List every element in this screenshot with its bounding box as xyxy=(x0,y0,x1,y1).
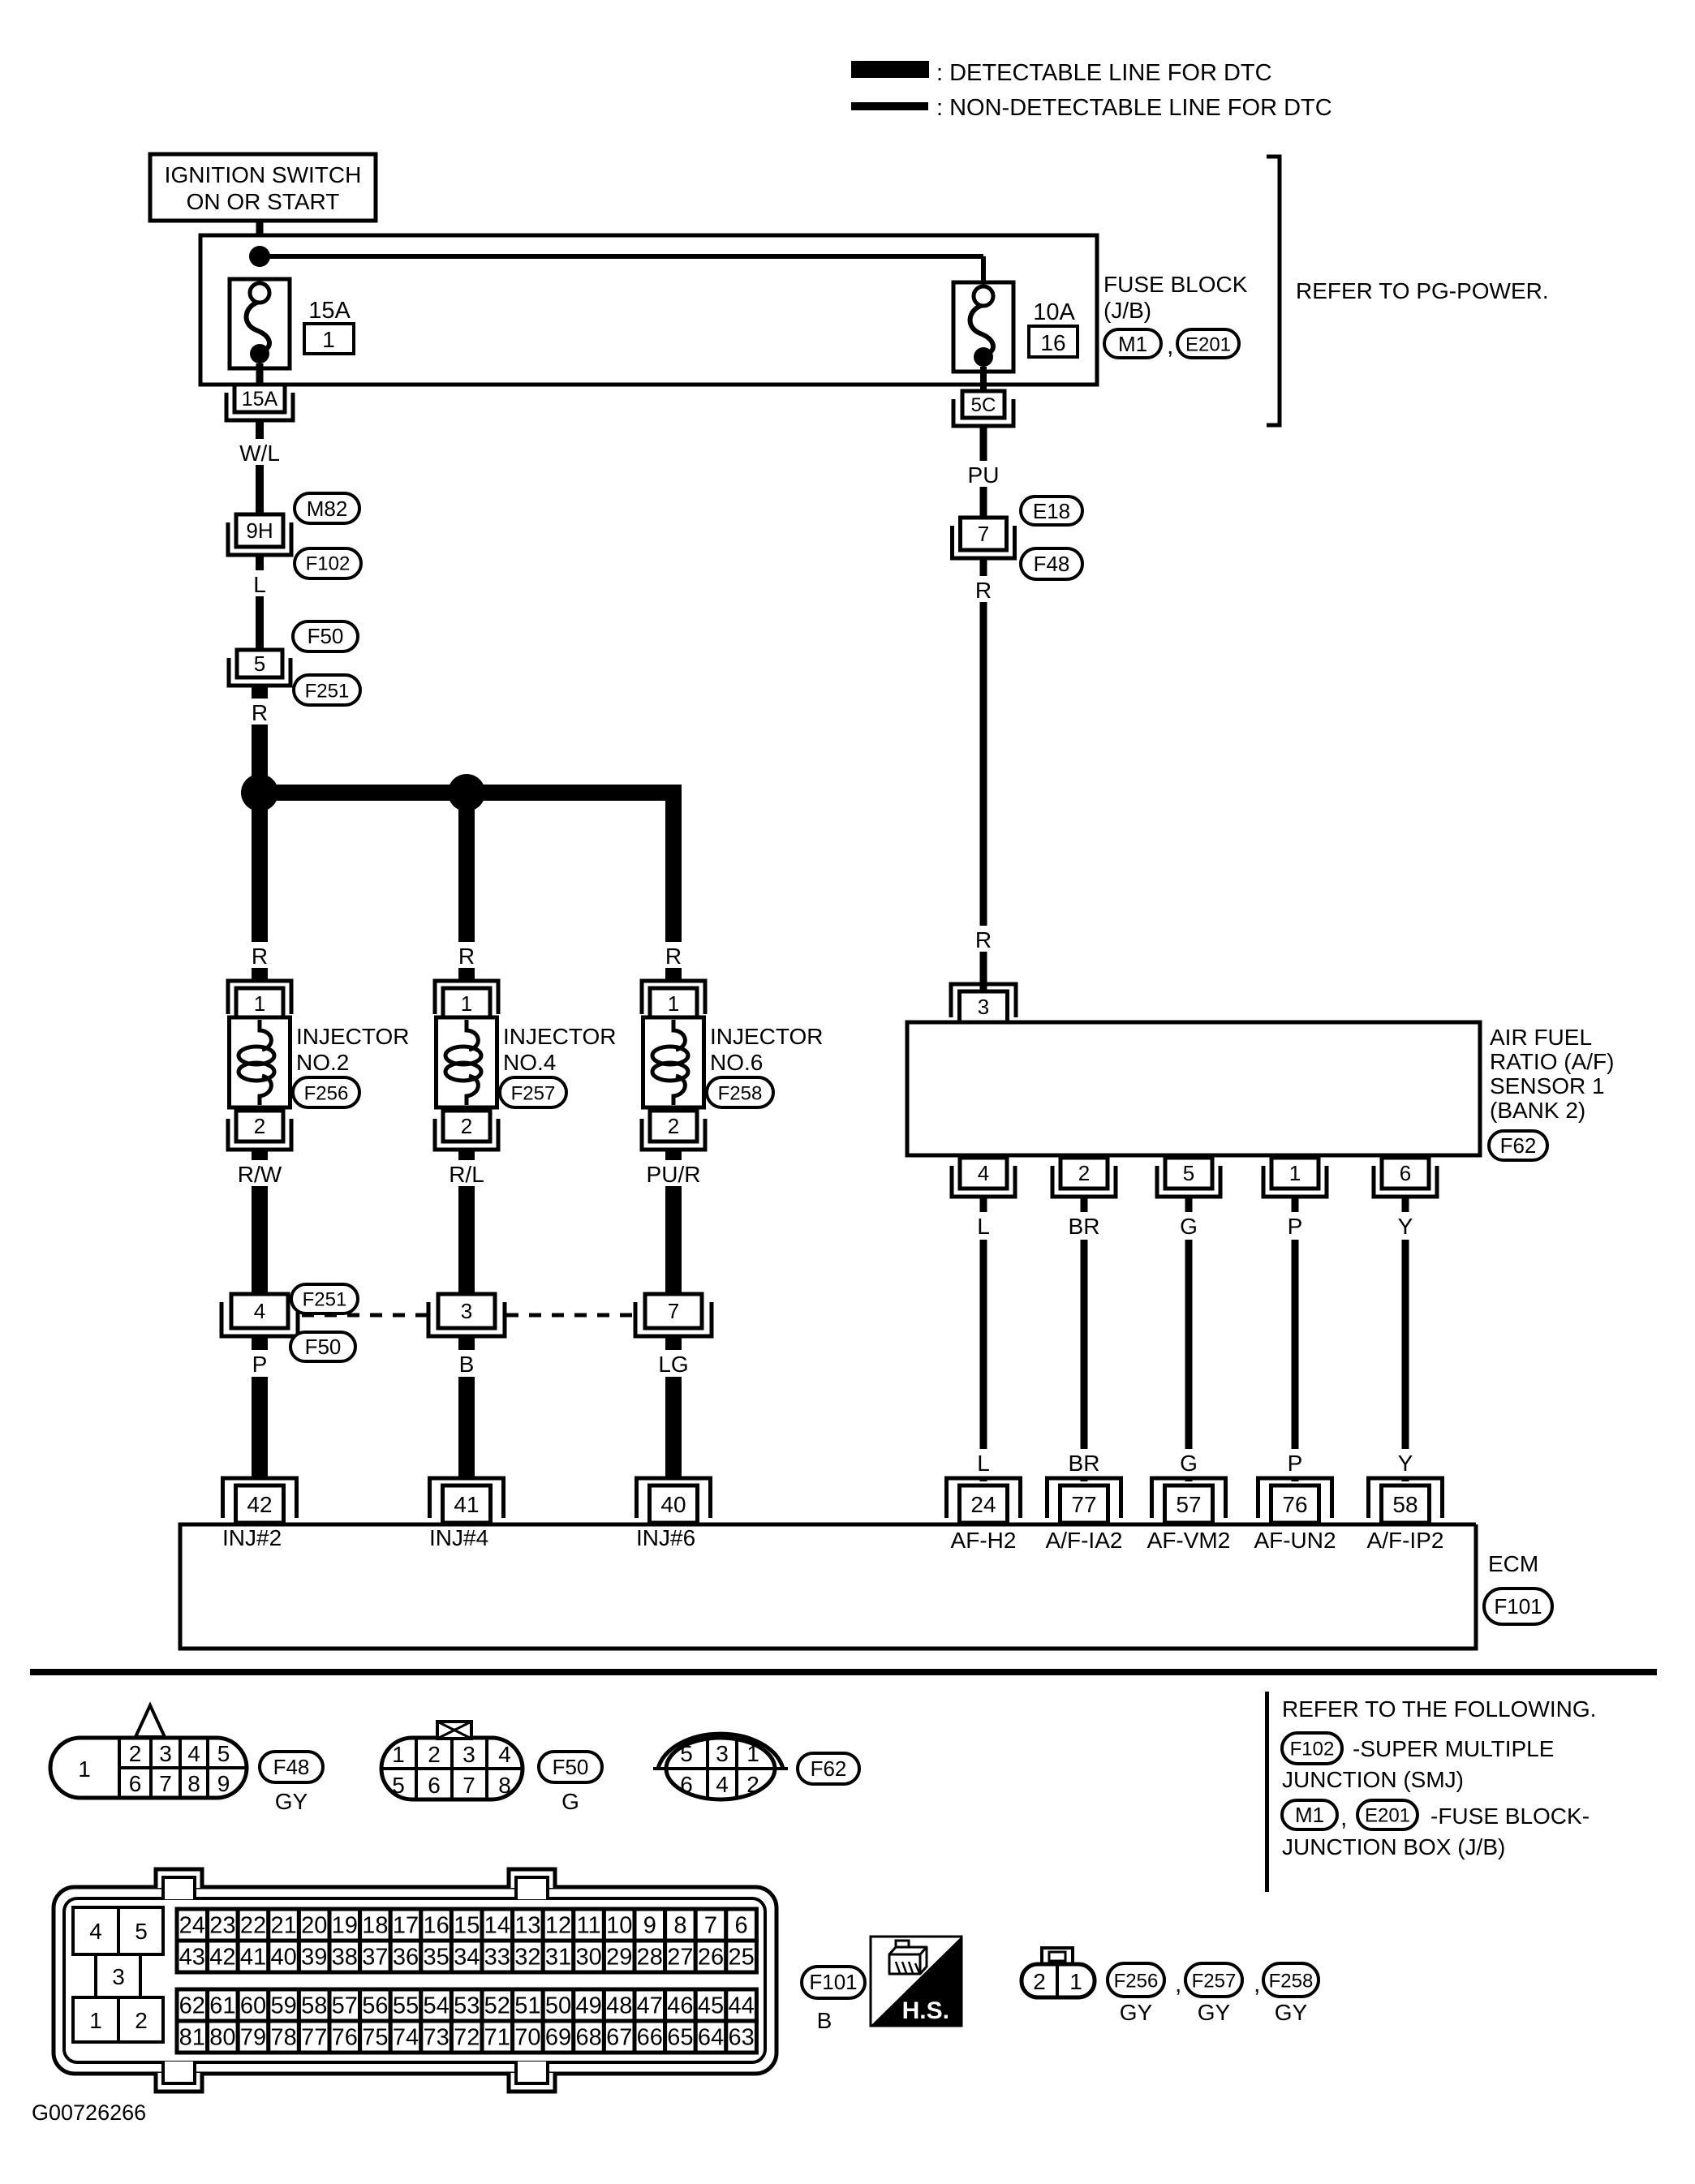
ECM pin 58 xyxy=(1369,1478,1443,1518)
wire LG xyxy=(665,1336,682,1352)
svg-text:E18: E18 xyxy=(1033,499,1070,523)
svg-text:74: 74 xyxy=(393,2025,419,2051)
svg-text:40: 40 xyxy=(270,1945,296,1971)
A/F sensor pin 5 xyxy=(1157,1166,1220,1197)
wire: fuse 16 to connector 5C xyxy=(980,367,987,391)
svg-text:5: 5 xyxy=(392,1773,405,1798)
svg-text:3: 3 xyxy=(978,995,989,1019)
svg-text:AF-UN2: AF-UN2 xyxy=(1254,1528,1336,1553)
svg-text:L: L xyxy=(977,1451,990,1476)
junction node in fuse block xyxy=(249,246,270,267)
svg-text:M1: M1 xyxy=(1118,332,1147,356)
connector 15A xyxy=(226,393,293,420)
svg-text:G: G xyxy=(561,1789,579,1814)
svg-text:60: 60 xyxy=(240,1993,266,2019)
connector 7 (E18/F48) xyxy=(953,526,1015,558)
ignition switch box xyxy=(150,154,376,221)
svg-text:6: 6 xyxy=(428,1773,441,1798)
svg-text:GY: GY xyxy=(1198,2000,1231,2025)
svg-text:F62: F62 xyxy=(811,1756,847,1781)
svg-text:24: 24 xyxy=(179,1913,205,1939)
svg-text:28: 28 xyxy=(637,1945,663,1971)
svg-text:9: 9 xyxy=(643,1913,656,1939)
oval M82 xyxy=(295,493,359,523)
svg-text:INJECTOR: INJECTOR xyxy=(503,1024,617,1049)
svg-text:ECM: ECM xyxy=(1488,1551,1538,1576)
svg-text:62: 62 xyxy=(179,1993,205,2019)
svg-text:1: 1 xyxy=(1069,1969,1082,1994)
svg-text:1: 1 xyxy=(254,991,265,1016)
svg-text:10A: 10A xyxy=(1033,299,1075,325)
svg-text:5: 5 xyxy=(254,651,265,676)
svg-text:GY: GY xyxy=(1120,2000,1153,2025)
svg-text:PU/R: PU/R xyxy=(647,1162,701,1187)
svg-text:78: 78 xyxy=(270,2025,296,2051)
svg-text:: DETECTABLE LINE FOR DTC: : DETECTABLE LINE FOR DTC xyxy=(936,60,1272,86)
svg-text:8: 8 xyxy=(673,1913,686,1939)
svg-text:5C: 5C xyxy=(971,394,996,416)
oval F50 (upper) xyxy=(293,621,358,651)
svg-text:INJECTOR: INJECTOR xyxy=(296,1024,410,1049)
svg-text:F62: F62 xyxy=(1500,1133,1537,1158)
svg-text:8: 8 xyxy=(498,1773,511,1798)
svg-text:F258: F258 xyxy=(718,1082,763,1104)
svg-text:70: 70 xyxy=(514,2025,540,2051)
connector 5C xyxy=(953,399,1013,426)
svg-text:L: L xyxy=(977,1214,990,1239)
svg-text:37: 37 xyxy=(362,1945,388,1971)
wire PU xyxy=(980,425,987,518)
svg-text:1: 1 xyxy=(392,1742,405,1767)
svg-text:77: 77 xyxy=(301,2025,327,2051)
svg-text:B: B xyxy=(817,2008,832,2033)
wire: fuse 1 to connector 15A xyxy=(256,363,264,385)
F101 pin grid lower xyxy=(177,1989,208,2021)
svg-text:Y: Y xyxy=(1398,1451,1413,1476)
svg-text:47: 47 xyxy=(637,1993,663,2019)
svg-text:R: R xyxy=(975,578,992,603)
dashed connector link xyxy=(302,1313,433,1318)
ECM pin 40 xyxy=(637,1478,711,1518)
svg-text:NO.4: NO.4 xyxy=(503,1050,556,1075)
svg-text:12: 12 xyxy=(545,1913,571,1939)
svg-text:24: 24 xyxy=(970,1492,996,1517)
svg-text:F50: F50 xyxy=(308,624,344,648)
oval F257 xyxy=(500,1077,566,1107)
svg-text:56: 56 xyxy=(362,1993,388,2019)
svg-text:19: 19 xyxy=(332,1913,358,1939)
wire R (right, upper) xyxy=(980,558,987,581)
svg-text:18: 18 xyxy=(362,1913,388,1939)
svg-text:32: 32 xyxy=(514,1945,540,1971)
svg-text:A/F-IA2: A/F-IA2 xyxy=(1046,1528,1123,1553)
svg-text:21: 21 xyxy=(270,1913,296,1939)
svg-text:F251: F251 xyxy=(305,680,350,702)
wire: R wire to injector 2 xyxy=(252,793,268,946)
svg-text:79: 79 xyxy=(240,2025,266,2051)
svg-text:GY: GY xyxy=(275,1789,308,1814)
svg-text:F101: F101 xyxy=(809,1970,857,1994)
svg-text:-FUSE BLOCK-: -FUSE BLOCK- xyxy=(1430,1804,1590,1829)
wire: ignition switch to fuse block xyxy=(256,221,264,284)
svg-text:JUNCTION BOX (J/B): JUNCTION BOX (J/B) xyxy=(1282,1834,1505,1859)
svg-text:20: 20 xyxy=(301,1913,327,1939)
svg-text:F256: F256 xyxy=(1114,1970,1159,1992)
svg-text:49: 49 xyxy=(575,1993,601,2019)
svg-text:GY: GY xyxy=(1275,2000,1308,2025)
oval F62 (pinout) xyxy=(798,1753,859,1784)
svg-text:9H: 9H xyxy=(246,518,273,543)
svg-text:5: 5 xyxy=(680,1741,693,1766)
svg-text:F251: F251 xyxy=(303,1288,347,1310)
svg-text:G: G xyxy=(1180,1451,1198,1476)
svg-text:NO.6: NO.6 xyxy=(710,1050,763,1075)
svg-text:NO.2: NO.2 xyxy=(296,1050,349,1075)
svg-text:F257: F257 xyxy=(1192,1970,1237,1992)
oval M1 (note) xyxy=(1282,1800,1337,1829)
svg-text:1: 1 xyxy=(322,327,335,352)
svg-text:AF-H2: AF-H2 xyxy=(951,1528,1017,1553)
svg-text:M82: M82 xyxy=(307,497,348,521)
connector tab bottom xyxy=(156,2073,202,2092)
svg-text:Y: Y xyxy=(1398,1214,1413,1239)
svg-text:R: R xyxy=(458,944,475,969)
legend: non-detectable line sample xyxy=(851,102,928,110)
svg-text:F257: F257 xyxy=(511,1082,556,1104)
svg-text:58: 58 xyxy=(301,1993,327,2019)
svg-text:7: 7 xyxy=(159,1771,172,1796)
connector 4 xyxy=(222,1302,298,1336)
svg-text:48: 48 xyxy=(606,1993,632,2019)
svg-text:F48: F48 xyxy=(273,1755,310,1779)
svg-text:P: P xyxy=(1288,1451,1303,1476)
svg-text:43: 43 xyxy=(179,1945,205,1971)
svg-text:4: 4 xyxy=(187,1741,200,1766)
svg-text:R: R xyxy=(252,944,268,969)
oval E18 xyxy=(1021,497,1082,525)
svg-text:61: 61 xyxy=(209,1993,235,2019)
svg-text:69: 69 xyxy=(545,2025,571,2051)
svg-text:F101: F101 xyxy=(1494,1594,1542,1619)
svg-text:59: 59 xyxy=(270,1993,296,2019)
svg-text:P: P xyxy=(252,1352,268,1377)
svg-text:JUNCTION (SMJ): JUNCTION (SMJ) xyxy=(1282,1767,1464,1792)
svg-text:A/F-IP2: A/F-IP2 xyxy=(1367,1528,1444,1553)
A/F sensor pin 6 xyxy=(1374,1166,1437,1197)
svg-text:,: , xyxy=(1254,1971,1260,1997)
svg-text:71: 71 xyxy=(484,2025,510,2051)
oval F101 (pinout) xyxy=(802,1967,865,1998)
F101 pins 4,5,3,1,2 xyxy=(73,1907,118,1954)
svg-text:,: , xyxy=(1340,1804,1347,1831)
svg-text:3: 3 xyxy=(461,1299,472,1323)
junction dot A xyxy=(241,774,278,811)
svg-text:66: 66 xyxy=(637,2025,663,2051)
svg-text:81: 81 xyxy=(179,2025,205,2051)
injector NO.6 xyxy=(642,981,705,1014)
svg-text:3: 3 xyxy=(716,1741,729,1766)
svg-text:2: 2 xyxy=(129,1741,142,1766)
wire R (right, lower) xyxy=(980,948,987,991)
svg-text:38: 38 xyxy=(332,1945,358,1971)
F62 pinout connector xyxy=(666,1738,775,1799)
svg-text:H.S.: H.S. xyxy=(902,1997,949,2024)
svg-text:R: R xyxy=(975,927,992,952)
svg-text:6: 6 xyxy=(1400,1161,1411,1185)
connector tab bottom xyxy=(509,2073,555,2092)
oval F251 (upper) xyxy=(294,675,360,705)
svg-text:50: 50 xyxy=(545,1993,571,2019)
svg-text:R/W: R/W xyxy=(238,1162,282,1187)
svg-text:RATIO (A/F): RATIO (A/F) xyxy=(1490,1049,1614,1074)
oval F62 (sensor) xyxy=(1489,1131,1547,1160)
ECM pin 24 xyxy=(947,1478,1021,1518)
svg-text:11: 11 xyxy=(577,1913,601,1939)
divider line xyxy=(30,1669,1657,1675)
svg-text:1: 1 xyxy=(1289,1161,1301,1185)
A/F sensor pin 3 xyxy=(951,984,1016,1017)
svg-text:27: 27 xyxy=(667,1945,693,1971)
svg-text:53: 53 xyxy=(454,1993,480,2019)
svg-text:,: , xyxy=(1175,1971,1181,1997)
connector 5 xyxy=(229,658,290,686)
svg-text:6: 6 xyxy=(129,1771,142,1796)
wire P xyxy=(1292,1197,1299,1212)
svg-text:2: 2 xyxy=(746,1772,759,1797)
svg-text:26: 26 xyxy=(698,1945,724,1971)
svg-text:ON OR START: ON OR START xyxy=(187,189,340,214)
svg-text:6: 6 xyxy=(680,1772,693,1797)
wire BR xyxy=(1081,1197,1088,1212)
svg-text:2: 2 xyxy=(1033,1969,1046,1994)
svg-text:INJECTOR: INJECTOR xyxy=(710,1024,824,1049)
svg-text:R: R xyxy=(665,944,682,969)
air fuel ratio sensor box xyxy=(907,1022,1480,1155)
ECM box xyxy=(180,1524,1476,1649)
F50 pinout connector xyxy=(381,1738,523,1799)
svg-text:76: 76 xyxy=(1282,1492,1307,1517)
svg-text:57: 57 xyxy=(1176,1492,1201,1517)
svg-text:BR: BR xyxy=(1069,1214,1100,1239)
svg-text:25: 25 xyxy=(728,1945,754,1971)
A/F sensor pin 4 xyxy=(952,1166,1015,1197)
oval F102 (note) xyxy=(1282,1733,1342,1764)
oval E201 (note) xyxy=(1357,1800,1418,1829)
injector NO.2 xyxy=(228,981,291,1014)
svg-text:30: 30 xyxy=(575,1945,601,1971)
svg-text:4: 4 xyxy=(978,1161,989,1185)
H.S. view symbol xyxy=(871,1937,962,2026)
svg-text:F102: F102 xyxy=(306,552,351,574)
svg-text:REFER TO THE FOLLOWING.: REFER TO THE FOLLOWING. xyxy=(1282,1696,1596,1722)
refer-to-following separator bar xyxy=(1265,1692,1269,1892)
wire Y xyxy=(1402,1197,1409,1212)
svg-text:40: 40 xyxy=(660,1492,686,1517)
wire W/L xyxy=(256,420,264,514)
svg-text:15: 15 xyxy=(454,1913,480,1939)
svg-text:41: 41 xyxy=(240,1945,266,1971)
svg-text:E201: E201 xyxy=(1365,1804,1410,1826)
svg-text:41: 41 xyxy=(454,1492,479,1517)
wire B xyxy=(458,1336,475,1352)
svg-text:72: 72 xyxy=(454,2025,480,2051)
svg-text:BR: BR xyxy=(1069,1451,1100,1476)
svg-text:7: 7 xyxy=(668,1299,679,1323)
injector NO.4 xyxy=(435,981,498,1014)
svg-text:INJ#2: INJ#2 xyxy=(222,1525,282,1550)
svg-text:-SUPER MULTIPLE: -SUPER MULTIPLE xyxy=(1353,1736,1554,1761)
oval F50 (pinout) xyxy=(539,1752,602,1782)
svg-text:15A: 15A xyxy=(308,298,351,324)
svg-text:6: 6 xyxy=(735,1913,748,1939)
svg-text:13: 13 xyxy=(514,1913,540,1939)
svg-text:16: 16 xyxy=(1040,330,1065,355)
svg-text:4: 4 xyxy=(89,1919,102,1944)
svg-text:29: 29 xyxy=(606,1945,632,1971)
svg-text:58: 58 xyxy=(1392,1492,1418,1517)
ECM pin 77 xyxy=(1048,1478,1121,1518)
svg-text:2: 2 xyxy=(428,1742,441,1767)
svg-text:9: 9 xyxy=(217,1771,230,1796)
ECM pin 41 xyxy=(430,1478,504,1518)
svg-text:SENSOR 1: SENSOR 1 xyxy=(1490,1073,1605,1098)
oval F257 (pinout) xyxy=(1185,1963,1242,1997)
connector M1 oval xyxy=(1104,329,1161,358)
wire: node to fuse 16 xyxy=(260,254,983,259)
svg-text:73: 73 xyxy=(423,2025,449,2051)
svg-text:2: 2 xyxy=(1078,1161,1090,1185)
svg-text:4: 4 xyxy=(716,1772,729,1797)
svg-text:G00726266: G00726266 xyxy=(32,2100,146,2125)
svg-text:34: 34 xyxy=(454,1945,480,1971)
svg-text:65: 65 xyxy=(667,2025,693,2051)
svg-text:23: 23 xyxy=(209,1913,235,1939)
wire R/W xyxy=(252,1150,268,1162)
svg-text:7: 7 xyxy=(978,522,989,546)
F101 ECM connector outline xyxy=(54,1887,777,2074)
svg-text:68: 68 xyxy=(575,2025,601,2051)
svg-text:44: 44 xyxy=(728,1993,754,2019)
svg-text:3: 3 xyxy=(462,1742,475,1767)
oval F256 xyxy=(293,1077,359,1107)
svg-text:,: , xyxy=(1167,333,1173,359)
svg-text:1: 1 xyxy=(746,1741,759,1766)
svg-text:1: 1 xyxy=(89,2008,102,2033)
svg-text:15A: 15A xyxy=(242,388,278,411)
bracket xyxy=(1267,157,1280,425)
svg-text:63: 63 xyxy=(728,2025,754,2051)
svg-text:3: 3 xyxy=(159,1741,172,1766)
oval F101 (ECM) xyxy=(1484,1589,1552,1624)
connector 2|1 xyxy=(1042,1948,1073,1965)
svg-text:64: 64 xyxy=(698,2025,724,2051)
oval F48 (pinout) xyxy=(260,1752,323,1782)
svg-text:31: 31 xyxy=(545,1945,571,1971)
svg-text:R/L: R/L xyxy=(449,1162,484,1187)
svg-text:2: 2 xyxy=(254,1114,265,1138)
svg-text:55: 55 xyxy=(393,1993,419,2019)
svg-text:22: 22 xyxy=(240,1913,266,1939)
legend: detectable line sample xyxy=(851,61,929,78)
wire G xyxy=(1185,1197,1193,1212)
svg-text:52: 52 xyxy=(484,1993,510,2019)
svg-text:80: 80 xyxy=(209,2025,235,2051)
svg-text:PU: PU xyxy=(968,462,1000,488)
svg-text:M1: M1 xyxy=(1295,1803,1324,1827)
connector 3 xyxy=(428,1302,505,1336)
svg-text:1: 1 xyxy=(461,991,472,1016)
wire: R wire to injector 6 xyxy=(665,793,682,946)
wire R/L xyxy=(458,1150,475,1162)
svg-text:F48: F48 xyxy=(1034,552,1070,576)
connector E201 oval xyxy=(1177,329,1239,358)
svg-text:F102: F102 xyxy=(1290,1738,1335,1760)
svg-text:INJ#4: INJ#4 xyxy=(429,1525,488,1550)
oval F258 xyxy=(707,1077,773,1107)
connector 9H xyxy=(228,522,291,555)
svg-text:B: B xyxy=(459,1352,475,1377)
svg-text:P: P xyxy=(1288,1214,1303,1239)
ECM pin 76 xyxy=(1258,1478,1332,1518)
svg-text:F258: F258 xyxy=(1269,1970,1314,1992)
svg-text:76: 76 xyxy=(332,2025,358,2051)
svg-text:67: 67 xyxy=(606,2025,632,2051)
svg-text:E201: E201 xyxy=(1185,333,1231,355)
svg-text:REFER TO PG-POWER.: REFER TO PG-POWER. xyxy=(1296,278,1549,303)
F48 pinout connector xyxy=(50,1738,247,1798)
wire L xyxy=(256,555,264,650)
junction dot B xyxy=(448,774,485,811)
svg-text:51: 51 xyxy=(514,1993,540,2019)
svg-text:FUSE BLOCK: FUSE BLOCK xyxy=(1103,272,1248,297)
svg-text:36: 36 xyxy=(393,1945,419,1971)
svg-text:AIR FUEL: AIR FUEL xyxy=(1490,1025,1592,1050)
svg-text:2: 2 xyxy=(135,2008,148,2033)
svg-text:1: 1 xyxy=(668,991,679,1016)
svg-text:7: 7 xyxy=(462,1773,475,1798)
svg-text:(J/B): (J/B) xyxy=(1103,298,1151,323)
svg-text:F50: F50 xyxy=(305,1335,342,1359)
svg-text:17: 17 xyxy=(393,1913,419,1939)
svg-text:IGNITION SWITCH: IGNITION SWITCH xyxy=(165,162,362,187)
svg-text:F50: F50 xyxy=(553,1755,589,1779)
oval F256 (pinout) xyxy=(1108,1963,1164,1997)
wire L xyxy=(980,1197,987,1212)
ECM pin 42 xyxy=(223,1478,297,1518)
connector tab top xyxy=(509,1869,555,1888)
connector 7 (mid) xyxy=(635,1302,712,1336)
svg-text:L: L xyxy=(253,572,266,597)
svg-text:33: 33 xyxy=(484,1945,510,1971)
svg-text:8: 8 xyxy=(187,1771,200,1796)
wire: R wire to injector 4 xyxy=(458,793,475,946)
svg-text:14: 14 xyxy=(484,1913,510,1939)
wire P xyxy=(252,1336,268,1352)
svg-text:46: 46 xyxy=(667,1993,693,2019)
oval F102 xyxy=(295,548,361,578)
svg-text:LG: LG xyxy=(658,1352,688,1377)
svg-text:AF-VM2: AF-VM2 xyxy=(1147,1528,1231,1553)
svg-text:57: 57 xyxy=(332,1993,358,2019)
svg-text:54: 54 xyxy=(423,1993,449,2019)
svg-text:45: 45 xyxy=(698,1993,724,2019)
svg-text:: NON-DETECTABLE LINE FOR DTC: : NON-DETECTABLE LINE FOR DTC xyxy=(936,95,1332,121)
A/F sensor pin 2 xyxy=(1052,1166,1116,1197)
svg-text:4: 4 xyxy=(254,1299,265,1323)
ECM pin 57 xyxy=(1152,1478,1226,1518)
svg-text:77: 77 xyxy=(1071,1492,1096,1517)
svg-text:35: 35 xyxy=(423,1945,449,1971)
